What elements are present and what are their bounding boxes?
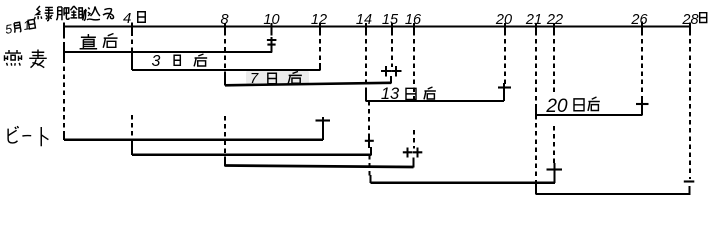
label 7日后 highlight — [246, 70, 309, 85]
svg-text:14: 14 — [356, 12, 372, 28]
axis top date line — [63, 25, 690, 27]
label ビート — [8, 126, 18, 143]
svg-text:13: 13 — [381, 85, 400, 103]
svg-text:3: 3 — [152, 53, 161, 70]
beet bar sown day21 — [536, 193, 690, 195]
svg-text:15: 15 — [382, 12, 399, 28]
solid bar-end ticks and corners — [64, 37, 690, 195]
label 直后 — [80, 34, 98, 49]
svg-text:20: 20 — [495, 12, 512, 28]
beet bar sown day14 — [371, 181, 556, 183]
label 燕麦 — [5, 50, 22, 66]
mark - at day28 on beet bar5 — [684, 180, 695, 182]
svg-text:12: 12 — [311, 12, 327, 28]
beet bar sown day4 — [132, 153, 371, 155]
mark + at day20 on oat bar4 — [498, 86, 511, 88]
oat bar 13日後 — [366, 100, 504, 102]
dashed verticals grid — [64, 31, 690, 184]
oat bar 7日後 — [225, 83, 391, 86]
svg-text:20: 20 — [545, 96, 568, 117]
label 5月1日 — [4, 17, 36, 37]
mark ++ at day16 on beet bar3 — [403, 151, 423, 153]
beet bar sown May1 — [64, 139, 323, 141]
mark + at day12 on beet bar1 — [316, 119, 331, 121]
svg-text:5: 5 — [4, 22, 13, 37]
svg-text:26: 26 — [630, 12, 648, 28]
svg-text:10: 10 — [263, 12, 279, 28]
oat bar 直後 (sown May1) — [64, 51, 272, 53]
mark + at day22 on beet bar4 — [547, 168, 563, 170]
mark ++ at day15 on oat bar3 — [381, 70, 402, 72]
axis tick marks — [64, 22, 690, 35]
svg-text:16: 16 — [405, 12, 422, 28]
svg-text:22: 22 — [546, 12, 563, 28]
svg-text:28: 28 — [681, 12, 698, 28]
mark ‡ at day10 on oat bar1 — [267, 40, 277, 45]
svg-text:21: 21 — [525, 12, 542, 28]
beet bar sown day8 — [225, 166, 414, 168]
oat bar 3日後 — [132, 69, 320, 71]
label 緑肥鋤込み — [35, 6, 54, 21]
oat bar 20日後 — [535, 114, 642, 116]
svg-text:7: 7 — [250, 70, 259, 87]
mark + at day14 on beet bar2 — [365, 140, 374, 142]
mark + at day26 on oat bar5 — [636, 103, 649, 105]
svg-text:8: 8 — [220, 12, 228, 28]
svg-text:4: 4 — [123, 10, 131, 27]
